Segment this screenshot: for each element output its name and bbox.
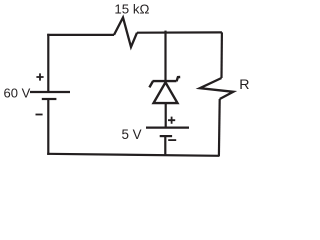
wire middle branch lower bbox=[164, 137, 166, 155]
wire top-right horizontal bbox=[137, 31, 222, 33]
svg-text:60 V: 60 V bbox=[4, 86, 31, 101]
battery V2 5 V positive long plate bbox=[146, 126, 189, 128]
wire left vertical lower bbox=[47, 100, 49, 155]
wire top-left horizontal bbox=[47, 34, 114, 36]
svg-text:5 V: 5 V bbox=[122, 127, 142, 142]
svg-text:15 kΩ: 15 kΩ bbox=[114, 1, 149, 16]
label 15 kOhm bbox=[114, 1, 149, 16]
battery V1 60 V negative short plate bbox=[42, 98, 57, 100]
minus sign of battery V1 bbox=[36, 114, 43, 116]
node junction top of middle branch bbox=[164, 31, 166, 34]
wire right vertical lower bbox=[218, 99, 221, 156]
wire middle branch upper bbox=[164, 32, 166, 81]
label 60 V bbox=[4, 86, 31, 101]
zener diode D1 cathode bar with bent ends bbox=[149, 77, 180, 87]
battery V2 5 V negative short plate bbox=[160, 135, 172, 137]
battery V1 60 V positive long plate bbox=[30, 91, 70, 93]
resistor R zigzag bbox=[200, 78, 234, 99]
wire left vertical upper bbox=[47, 34, 49, 92]
resistor R1 15 kOhm zigzag bbox=[114, 18, 137, 48]
plus sign of battery V2 bbox=[168, 117, 175, 124]
minus sign of battery V2 bbox=[168, 139, 176, 141]
zener diode D1 triangle anode bbox=[154, 82, 178, 103]
svg-text:R: R bbox=[239, 77, 249, 93]
plus sign of battery V1 bbox=[36, 73, 43, 80]
wire bottom horizontal bbox=[47, 154, 219, 156]
wire right vertical upper bbox=[220, 32, 223, 78]
label R bbox=[239, 77, 249, 93]
label 5 V bbox=[122, 127, 142, 142]
wire middle branch between zener and battery V2 bbox=[165, 103, 167, 126]
